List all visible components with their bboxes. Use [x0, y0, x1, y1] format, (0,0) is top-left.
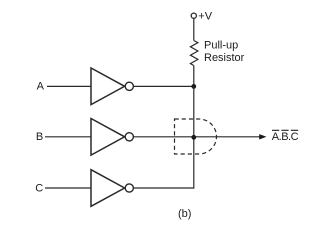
- wire input C: [45, 187, 91, 189]
- svg-text:Resistor: Resistor: [204, 52, 245, 64]
- wire from resistor to node A junction: [193, 66, 195, 87]
- junction dot node A row: [191, 84, 196, 89]
- svg-text:A.B.C: A.B.C: [272, 131, 299, 143]
- arrowhead output: [259, 134, 266, 139]
- wire U2 output through wired-AND node to arrow: [134, 136, 262, 138]
- overbar C: [291, 129, 298, 131]
- resistor R pull-up (zigzag): [190, 41, 198, 66]
- wire input A: [47, 85, 91, 87]
- svg-text:C: C: [35, 182, 43, 194]
- wire U1 output to node: [134, 85, 194, 87]
- svg-text:+V: +V: [198, 10, 212, 22]
- svg-text:(b): (b): [178, 208, 191, 220]
- inverter U1 bubble: [125, 82, 133, 90]
- overbar A: [272, 129, 279, 131]
- wire U3 output to vertical riser: [134, 187, 195, 189]
- wire input B: [45, 136, 91, 138]
- inverter U2 bubble: [125, 133, 133, 141]
- +V terminal: [191, 13, 196, 18]
- svg-text:B: B: [36, 131, 43, 143]
- inverter U3 triangle: [91, 170, 125, 207]
- svg-text:Pull-up: Pull-up: [204, 40, 238, 52]
- inverter U3 bubble: [125, 184, 133, 192]
- dashed virtual AND gate: [175, 119, 217, 154]
- junction dot wired-AND node: [191, 135, 196, 140]
- wire from +V terminal to resistor: [193, 19, 195, 41]
- wire node A row down to wired-AND node and to C corner: [193, 86, 195, 188]
- overbar B: [281, 129, 288, 131]
- inverter U2 triangle: [91, 119, 125, 156]
- inverter U1 triangle: [91, 68, 125, 105]
- svg-text:A: A: [37, 81, 45, 93]
